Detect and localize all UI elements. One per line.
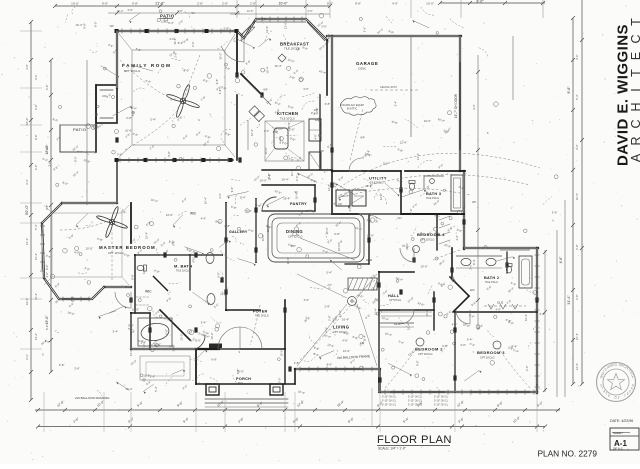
svg-text:16′-4″: 16′-4″ bbox=[524, 314, 528, 321]
kitchen oven column bbox=[309, 119, 321, 141]
svg-text:BATH 3: BATH 3 bbox=[426, 192, 441, 196]
exterior wall bedroom wing top bbox=[464, 247, 538, 249]
svg-text:2′-8″: 2′-8″ bbox=[141, 341, 147, 345]
wall master bath north bbox=[135, 254, 222, 256]
door jamb blocks bbox=[235, 72, 238, 77]
exterior wall bedroom3 right bbox=[536, 248, 538, 393]
svg-text:CPT 10′CLG: CPT 10′CLG bbox=[420, 238, 435, 242]
utility washer dryer bbox=[336, 190, 350, 206]
dimension line right mid bbox=[564, 200, 566, 397]
kitchen sink on diagonal counter bbox=[249, 106, 265, 122]
wall utility top bbox=[332, 170, 401, 172]
svg-text:6′-8″: 6′-8″ bbox=[59, 363, 65, 367]
svg-text:31′-4″: 31′-4″ bbox=[567, 295, 571, 305]
svg-text:16′-4″: 16′-4″ bbox=[362, 335, 366, 342]
svg-text:4′-0″: 4′-0″ bbox=[25, 64, 29, 70]
exterior wall master west bbox=[42, 223, 44, 278]
wall kitchen diagonal northwest bbox=[241, 74, 262, 95]
svg-text:T: T bbox=[629, 69, 640, 77]
sink bbox=[430, 179, 435, 184]
svg-text:2′-8″: 2′-8″ bbox=[294, 361, 300, 365]
svg-text:8′-0″: 8′-0″ bbox=[195, 339, 201, 343]
wall garage west bbox=[331, 36, 333, 171]
svg-text:10′-0″: 10′-0″ bbox=[286, 257, 290, 264]
svg-text:8′-0″: 8′-0″ bbox=[273, 130, 279, 134]
svg-text:10′-0″: 10′-0″ bbox=[260, 179, 267, 183]
wall master bedroom east bbox=[130, 203, 132, 243]
svg-text:5′-4″: 5′-4″ bbox=[150, 118, 156, 122]
svg-text:16′-4″: 16′-4″ bbox=[342, 318, 349, 322]
wall foyer east bbox=[284, 300, 286, 349]
exterior wall family west upper bbox=[116, 31, 118, 88]
svg-text:CONC: CONC bbox=[358, 67, 366, 71]
svg-text:6′-8″: 6′-8″ bbox=[218, 89, 222, 95]
kitchen island bbox=[274, 128, 288, 149]
svg-text:M. BATH: M. BATH bbox=[174, 264, 192, 269]
svg-text:FAMILY ROOM: FAMILY ROOM bbox=[122, 63, 172, 68]
svg-text:12′-6″: 12′-6″ bbox=[34, 333, 38, 340]
svg-text:4′-6″: 4′-6″ bbox=[559, 256, 563, 264]
ticks right of garage dim line bbox=[476, 70, 480, 74]
svg-text:CLO: CLO bbox=[497, 301, 504, 305]
svg-text:5′-4″: 5′-4″ bbox=[394, 101, 398, 107]
svg-text:2′-8″: 2′-8″ bbox=[250, 2, 256, 6]
svg-text:3′-6″: 3′-6″ bbox=[25, 179, 29, 185]
electrical wiring arcs living bbox=[300, 306, 350, 360]
svg-text:8′-0″: 8′-0″ bbox=[171, 240, 175, 246]
dimension line bottom second bbox=[35, 409, 560, 411]
wall hall south / bedroom2 top bbox=[379, 309, 434, 311]
svg-text:4′-0″: 4′-0″ bbox=[45, 85, 49, 90]
svg-text:9′-8″: 9′-8″ bbox=[102, 2, 108, 6]
tick marks bottom dimension lines bbox=[36, 408, 40, 412]
garage AC cloud note bbox=[341, 97, 377, 116]
kitchen refrigerator bbox=[309, 152, 321, 170]
svg-text:12′-6″: 12′-6″ bbox=[379, 193, 383, 200]
svg-text:10′-0″: 10′-0″ bbox=[343, 349, 350, 353]
windows master west bbox=[41, 230, 43, 270]
svg-text:12′-6″: 12′-6″ bbox=[327, 184, 331, 191]
wall wic south east bbox=[149, 313, 151, 349]
svg-text:S: S bbox=[487, 131, 489, 135]
wall family east / breakfast west bbox=[236, 31, 238, 75]
wall mullion ticks living south bbox=[299, 367, 301, 372]
wall mullion ticks bedroom2 south bbox=[384, 390, 386, 395]
wic shelf dashes bbox=[136, 296, 149, 298]
svg-text:9′-8″: 9′-8″ bbox=[215, 79, 219, 85]
kitchen counters bbox=[319, 95, 321, 168]
svg-text:10′-0″: 10′-0″ bbox=[278, 378, 282, 385]
svg-text:16′-4″: 16′-4″ bbox=[204, 197, 208, 204]
svg-text:S: S bbox=[536, 383, 538, 387]
electrical wiring arcs garage bbox=[336, 153, 540, 190]
exterior wall step living bbox=[379, 369, 381, 392]
dimension line right outer bbox=[572, 18, 574, 384]
svg-text:8′-0″: 8′-0″ bbox=[221, 276, 225, 282]
svg-text:TILE: TILE bbox=[238, 382, 243, 385]
svg-text:6′-8″: 6′-8″ bbox=[217, 272, 221, 278]
window master bay bbox=[62, 298, 90, 300]
svg-text:4′-0″: 4′-0″ bbox=[472, 104, 476, 110]
wall mullion ticks bedroom3 south bbox=[461, 390, 463, 395]
svg-text:CEILING JOIST: CEILING JOIST bbox=[380, 86, 398, 89]
door swing bbox=[115, 292, 131, 308]
svg-text:12′-6″: 12′-6″ bbox=[247, 9, 254, 13]
svg-text:6′-8″: 6′-8″ bbox=[34, 104, 38, 110]
wall pantry south bbox=[262, 210, 315, 212]
svg-text:WIC: WIC bbox=[145, 290, 152, 294]
ceiling fan master bedroom bbox=[96, 206, 128, 238]
breakfast chandelier bbox=[278, 54, 286, 62]
living room vaulted ceiling lines bbox=[297, 274, 347, 298]
svg-text:2′-8″: 2′-8″ bbox=[328, 315, 332, 321]
wall master bath closet bbox=[189, 255, 191, 290]
svg-text:16′-4″: 16′-4″ bbox=[407, 323, 411, 330]
master bedroom tray ceiling bbox=[52, 213, 122, 277]
svg-text:10′-0″: 10′-0″ bbox=[166, 213, 173, 217]
svg-text:10′-0″: 10′-0″ bbox=[424, 119, 431, 123]
svg-text:CPT 10′CLG: CPT 10′CLG bbox=[480, 356, 495, 360]
svg-text:16′-4″: 16′-4″ bbox=[266, 66, 270, 73]
svg-text:8′-0″: 8′-0″ bbox=[327, 363, 333, 367]
svg-text:16′-4″: 16′-4″ bbox=[117, 9, 124, 13]
svg-text:10′-0″: 10′-0″ bbox=[25, 118, 29, 125]
svg-text:HALL: HALL bbox=[388, 294, 400, 298]
svg-text:WP: WP bbox=[263, 88, 267, 92]
bedroom3 closet rod and hooks bbox=[484, 305, 526, 307]
svg-text:8′-0″: 8′-0″ bbox=[74, 156, 78, 162]
svg-text:3′-6″: 3′-6″ bbox=[303, 87, 309, 91]
svg-text:SCALE: 1/4″ = 1′-0″: SCALE: 1/4″ = 1′-0″ bbox=[378, 447, 407, 451]
svg-text:12′-6″: 12′-6″ bbox=[265, 26, 269, 33]
svg-text:6′-8″: 6′-8″ bbox=[325, 102, 331, 106]
svg-text:5′-10″ ON CL: 5′-10″ ON CL bbox=[408, 400, 423, 403]
svg-text:S: S bbox=[198, 118, 200, 122]
svg-text:CPT 10′CLG: CPT 10′CLG bbox=[418, 352, 433, 356]
curved wall foyer entry bbox=[195, 335, 205, 349]
bath3 tub bbox=[451, 175, 463, 211]
wall gallery east / dining west bbox=[255, 199, 257, 262]
svg-text:9′-8″: 9′-8″ bbox=[34, 134, 38, 140]
svg-text:S: S bbox=[42, 353, 44, 357]
svg-text:16′-4″: 16′-4″ bbox=[145, 232, 149, 239]
svg-text:KITCHEN: KITCHEN bbox=[277, 111, 298, 116]
svg-text:LOCATE A/C EQUIP: LOCATE A/C EQUIP bbox=[340, 103, 364, 107]
svg-text:5′-4″: 5′-4″ bbox=[326, 270, 332, 274]
svg-text:MASTER BEDROOM: MASTER BEDROOM bbox=[99, 245, 156, 250]
wall dining south jog bbox=[345, 263, 369, 265]
svg-text:3′-6″: 3′-6″ bbox=[193, 347, 199, 351]
svg-text:GFI: GFI bbox=[338, 202, 343, 206]
svg-text:19′-0″: 19′-0″ bbox=[45, 315, 49, 325]
svg-text:12′-6″: 12′-6″ bbox=[283, 22, 287, 29]
svg-text:H: H bbox=[629, 102, 640, 111]
wall foyer north bbox=[226, 309, 260, 311]
svg-text:TILE 10′CLG: TILE 10′CLG bbox=[284, 47, 300, 51]
svg-text:2′-8″: 2′-8″ bbox=[325, 305, 331, 309]
svg-text:10′-0″: 10′-0″ bbox=[25, 298, 29, 305]
svg-text:220: 220 bbox=[278, 126, 283, 130]
svg-text:5′-4″: 5′-4″ bbox=[45, 205, 49, 210]
svg-text:3′-6″: 3′-6″ bbox=[74, 367, 80, 371]
wall dining east bbox=[368, 215, 370, 264]
garage door on right wall bbox=[459, 62, 461, 150]
wall mullion ticks master west bbox=[40, 225, 45, 227]
svg-text:4′-0″: 4′-0″ bbox=[74, 251, 80, 255]
kitchen counter west edge bbox=[247, 120, 249, 150]
svg-text:4′-0″: 4′-0″ bbox=[191, 42, 195, 48]
extension lines above breakfast/garage bbox=[236, 0, 238, 18]
toilet bbox=[506, 264, 512, 273]
svg-text:2′-8″: 2′-8″ bbox=[333, 182, 337, 188]
svg-text:GFI: GFI bbox=[397, 216, 402, 220]
svg-text:3′-6″: 3′-6″ bbox=[455, 235, 459, 241]
svg-text:16′-4″: 16′-4″ bbox=[295, 192, 299, 199]
svg-text:5′-4″: 5′-4″ bbox=[154, 386, 158, 392]
svg-text:16′-4″: 16′-4″ bbox=[275, 64, 282, 68]
svg-text:2′-8″: 2′-8″ bbox=[126, 116, 132, 120]
wall bath2 diagonal entry upper bbox=[450, 277, 469, 296]
extension lines bottom bbox=[43, 392, 45, 432]
wall bath2 diagonal entry lower bbox=[453, 296, 469, 312]
svg-text:3′-6″: 3′-6″ bbox=[307, 9, 312, 13]
wall bedroom3 top / bath2 bottom bbox=[455, 311, 537, 313]
dimension line above patio bbox=[108, 12, 240, 14]
tick marks right border line bbox=[580, 38, 584, 42]
ceiling outlet bedroom3 bbox=[493, 341, 501, 349]
svg-text:PLAN NO. 2279: PLAN NO. 2279 bbox=[538, 449, 598, 459]
bath3 counter bbox=[424, 175, 444, 177]
wall bedroom4 top bbox=[401, 213, 464, 215]
svg-text:10′-0″: 10′-0″ bbox=[180, 334, 184, 341]
exterior wall living porch step bbox=[294, 369, 296, 384]
svg-text:8′-0″: 8′-0″ bbox=[45, 265, 49, 270]
svg-text:LIVING: LIVING bbox=[333, 325, 349, 330]
wall wic bottom jog bbox=[131, 312, 150, 314]
svg-text:4′-0″: 4′-0″ bbox=[264, 129, 270, 133]
bedroom4 closet hatch bbox=[439, 216, 450, 220]
windows bedroom3 south bbox=[470, 391, 530, 393]
svg-text:BATH 2: BATH 2 bbox=[484, 276, 499, 280]
svg-text:5′-4″: 5′-4″ bbox=[201, 321, 207, 325]
svg-text:A: A bbox=[629, 153, 640, 162]
svg-text:9′-8″: 9′-8″ bbox=[567, 86, 571, 94]
exterior wall patio top bbox=[117, 30, 237, 32]
wall family east lower bbox=[236, 95, 238, 160]
wall mullion ticks breakfast bay bbox=[261, 17, 263, 22]
svg-text:4′-0″: 4′-0″ bbox=[496, 308, 502, 312]
wall gallery west bbox=[225, 203, 227, 310]
extension lines left of plan bbox=[20, 30, 42, 32]
wall bath2 toilet compartment bbox=[506, 252, 508, 273]
svg-text:I: I bbox=[629, 88, 640, 91]
wall wic east bbox=[134, 255, 136, 313]
svg-text:5′-10″ ON CL: 5′-10″ ON CL bbox=[434, 400, 449, 403]
dimension line right of garage bbox=[477, 55, 479, 330]
svg-text:WIC: WIC bbox=[190, 212, 197, 216]
svg-text:5′-4″: 5′-4″ bbox=[34, 224, 38, 230]
svg-text:10′-0″: 10′-0″ bbox=[425, 309, 429, 316]
svg-text:C: C bbox=[629, 119, 640, 128]
svg-text:4′-0″: 4′-0″ bbox=[184, 69, 190, 73]
svg-text:6′-8″: 6′-8″ bbox=[355, 2, 361, 6]
svg-text:LIN: LIN bbox=[470, 288, 474, 292]
svg-text:UTILITY: UTILITY bbox=[369, 176, 387, 181]
exterior wall wic west bbox=[130, 313, 132, 349]
wall mullion ticks bedroom3 east bbox=[535, 254, 540, 256]
door swing bbox=[400, 310, 414, 324]
svg-text:16′-4″: 16′-4″ bbox=[287, 122, 291, 129]
svg-text:3′-6″: 3′-6″ bbox=[150, 375, 156, 379]
svg-text:16′-4″: 16′-4″ bbox=[371, 287, 378, 291]
breakfast bay window mullions bbox=[256, 21, 306, 23]
exterior wall living bottom bbox=[295, 368, 380, 370]
patio left lower outline bbox=[95, 85, 97, 152]
electrical wiring arcs master bbox=[60, 222, 105, 230]
svg-text:6′-8″: 6′-8″ bbox=[575, 244, 579, 250]
door swing bbox=[221, 38, 244, 62]
svg-text:PATIO: PATIO bbox=[73, 127, 86, 132]
svg-text:9′-8″: 9′-8″ bbox=[131, 274, 135, 280]
ceiling outlet living bbox=[348, 297, 357, 306]
svg-text:CPT 9′CLG: CPT 9′CLG bbox=[389, 299, 401, 302]
svg-text:CPT 12′CLG: CPT 12′CLG bbox=[124, 69, 141, 73]
svg-text:4′-0″: 4′-0″ bbox=[575, 144, 579, 150]
garage ceiling joist dashed note bbox=[370, 89, 420, 91]
svg-text:9′-8″: 9′-8″ bbox=[167, 151, 171, 157]
sheet number box bbox=[610, 428, 639, 450]
wall utility bath3 bottom bbox=[332, 213, 464, 215]
svg-text:9′-8″: 9′-8″ bbox=[128, 324, 134, 328]
svg-text:3′-6″: 3′-6″ bbox=[127, 8, 133, 12]
svg-text:3′-6″: 3′-6″ bbox=[48, 161, 52, 167]
svg-text:5′-4″: 5′-4″ bbox=[113, 329, 119, 333]
svg-text:6′-8″: 6′-8″ bbox=[211, 357, 217, 361]
svg-text:6′-8″: 6′-8″ bbox=[334, 232, 340, 236]
svg-text:WP: WP bbox=[320, 149, 324, 153]
svg-text:2′-8″: 2′-8″ bbox=[267, 173, 271, 179]
svg-text:10′-0″: 10′-0″ bbox=[261, 234, 265, 241]
svg-text:9′-8″: 9′-8″ bbox=[325, 327, 329, 333]
svg-text:6′-8″: 6′-8″ bbox=[540, 312, 546, 316]
svg-text:10′-0″: 10′-0″ bbox=[71, 2, 79, 6]
svg-text:GALLERY: GALLERY bbox=[229, 230, 248, 234]
svg-text:3′-6″: 3′-6″ bbox=[552, 211, 558, 215]
windows bedroom2 south bbox=[390, 391, 445, 393]
svg-text:5′-4″: 5′-4″ bbox=[353, 301, 357, 307]
svg-text:2′-8″: 2′-8″ bbox=[296, 230, 300, 236]
ceiling fan family room bbox=[166, 84, 200, 118]
exterior wall garage top bbox=[327, 35, 461, 37]
svg-text:DATE: 4/22/96: DATE: 4/22/96 bbox=[610, 419, 633, 423]
svg-text:5′-4″: 5′-4″ bbox=[168, 21, 174, 25]
svg-text:5′-10″ ON CL: 5′-10″ ON CL bbox=[382, 404, 397, 407]
svg-text:10′-0″: 10′-0″ bbox=[426, 2, 434, 6]
svg-text:9′-8″: 9′-8″ bbox=[416, 360, 420, 366]
exterior wall master bath bottom bbox=[131, 348, 219, 350]
exterior wall west of family-south patio bbox=[116, 160, 118, 203]
electrical wiring arcs bedrooms bbox=[385, 346, 418, 388]
door swing bbox=[456, 310, 470, 324]
svg-text:4′-0″: 4′-0″ bbox=[304, 298, 310, 302]
tick marks left inner dimension line bbox=[49, 58, 53, 62]
svg-text:2′-8″: 2′-8″ bbox=[575, 294, 579, 300]
dimension line right border bbox=[581, 0, 583, 384]
svg-text:WP: WP bbox=[472, 200, 476, 204]
svg-text:S: S bbox=[239, 350, 241, 354]
svg-text:5′-10″ ON CL: 5′-10″ ON CL bbox=[408, 396, 423, 399]
svg-text:GFI: GFI bbox=[262, 18, 267, 22]
svg-text:4′-0″: 4′-0″ bbox=[45, 272, 49, 278]
kitchen counter diagonal bbox=[246, 80, 271, 105]
svg-text:WP: WP bbox=[110, 24, 114, 28]
exterior wall garage to bath3 step bbox=[460, 170, 465, 172]
svg-text:220: 220 bbox=[102, 94, 107, 98]
svg-text:S3: S3 bbox=[191, 11, 195, 15]
dimension line left outer bbox=[30, 22, 32, 400]
svg-text:12′-6″: 12′-6″ bbox=[400, 141, 407, 145]
svg-text:WP: WP bbox=[360, 135, 364, 139]
svg-text:16′-4″: 16′-4″ bbox=[34, 253, 38, 260]
svg-text:16′-4″: 16′-4″ bbox=[142, 267, 146, 274]
exterior wall master top bbox=[62, 202, 117, 204]
door swing bbox=[400, 248, 414, 262]
patio posts top wall bbox=[115, 29, 119, 33]
svg-text:6′-8″: 6′-8″ bbox=[45, 145, 49, 150]
wall master bath tub diagonal bbox=[160, 310, 190, 340]
svg-text:12′-6″: 12′-6″ bbox=[409, 208, 413, 215]
porch rear edge bbox=[196, 383, 295, 385]
svg-text:9′-8″: 9′-8″ bbox=[230, 187, 234, 193]
svg-text:8′-0″: 8′-0″ bbox=[45, 325, 49, 330]
svg-text:FLOOR PLAN: FLOOR PLAN bbox=[377, 434, 452, 446]
wall kitchen south bbox=[262, 169, 332, 171]
door swing right bbox=[240, 327, 262, 349]
svg-text:SHEET: SHEET bbox=[613, 431, 623, 435]
exterior wall bedroom2-3 bottom bbox=[380, 391, 537, 393]
svg-text:9′-8″: 9′-8″ bbox=[132, 2, 138, 6]
svg-text:12′-6″: 12′-6″ bbox=[315, 107, 319, 114]
wall mullion ticks master bay bbox=[62, 297, 64, 302]
svg-text:PATIO: PATIO bbox=[160, 14, 175, 19]
dimension line top outer bbox=[55, 5, 330, 7]
svg-text:10′-0″: 10′-0″ bbox=[132, 307, 139, 311]
svg-text:GFI: GFI bbox=[306, 209, 311, 213]
exterior wall bath3 bedroom4 right bbox=[463, 171, 465, 249]
svg-text:10′-0″: 10′-0″ bbox=[575, 193, 579, 200]
svg-text:10′-0″: 10′-0″ bbox=[278, 2, 288, 6]
wall living east / bedroom2 west bbox=[378, 272, 380, 392]
svg-text:2′-8″: 2′-8″ bbox=[223, 27, 229, 31]
hall linen hatched cabinet bbox=[348, 278, 377, 290]
svg-text:PORCH: PORCH bbox=[236, 377, 251, 381]
svg-text:PANTRY: PANTRY bbox=[290, 202, 307, 206]
wall porch top / foyer bottom bbox=[196, 348, 285, 350]
svg-text:T: T bbox=[629, 18, 640, 26]
svg-text:3′-6″: 3′-6″ bbox=[327, 284, 331, 290]
svg-text:6′-8″: 6′-8″ bbox=[225, 224, 231, 228]
svg-text:3′-6″: 3′-6″ bbox=[321, 25, 327, 29]
svg-text:10′-0″: 10′-0″ bbox=[264, 147, 268, 154]
svg-text:12′-6″: 12′-6″ bbox=[575, 363, 579, 370]
wall hall north bbox=[379, 271, 414, 273]
tick marks left dimension line bbox=[29, 20, 33, 24]
threshold dark block foyer bbox=[209, 344, 222, 349]
svg-text:21′-8″: 21′-8″ bbox=[155, 2, 165, 6]
wall pantry north bbox=[262, 184, 315, 186]
svg-text:OF A-2: OF A-2 bbox=[613, 447, 623, 451]
svg-text:16′-4″: 16′-4″ bbox=[510, 344, 517, 348]
